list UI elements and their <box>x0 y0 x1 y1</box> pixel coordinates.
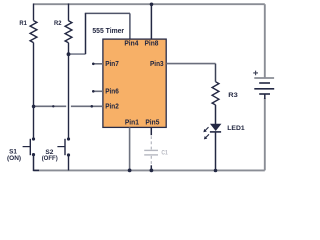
node Pin2 stub joint <box>91 105 94 108</box>
svg-text:Pin1: Pin1 <box>125 120 139 127</box>
wire C1 dashed lower <box>150 156 152 165</box>
node Pin6 stub end <box>92 90 95 93</box>
wire down to R3 <box>215 64 217 82</box>
svg-text:Pin4: Pin4 <box>124 40 138 47</box>
resistor R3 <box>212 82 219 105</box>
wire Pin8 to top rail <box>150 4 152 39</box>
switch S2 blade <box>64 139 66 155</box>
battery plate 3 long <box>254 88 274 90</box>
node R2 junction <box>67 52 71 56</box>
node rail x Pin1 <box>128 169 132 173</box>
battery plate 2 short <box>259 82 270 84</box>
wire LED to rail <box>215 132 217 171</box>
svg-text:Pin6: Pin6 <box>105 88 119 95</box>
wire Pin2 to S1 column (left of gap) <box>34 105 67 107</box>
svg-text:R2: R2 <box>54 20 62 27</box>
node small on Pin2 wire <box>52 105 54 107</box>
svg-text:Pin8: Pin8 <box>145 40 159 47</box>
LED1 diode triangle <box>211 124 221 130</box>
battery B1 plus sign <box>253 71 258 76</box>
wire Pin5 solid stub <box>150 127 152 135</box>
LED1 arrow 2 shaft <box>205 134 209 138</box>
battery plate 1 long gray <box>254 77 274 79</box>
battery plate 4 short <box>259 93 270 95</box>
node rail x C1 <box>150 169 154 173</box>
wire Pin5 dashed upper <box>150 136 152 149</box>
wire R2 bottom to S2 <box>68 43 70 138</box>
switch S1 lever <box>23 146 31 148</box>
svg-text:C1: C1 <box>161 150 168 157</box>
switch S1 blade <box>29 139 31 155</box>
LED1 arrow 1 head <box>203 129 206 132</box>
node rail x LED <box>214 169 218 173</box>
wire Pin7 stub <box>93 63 103 65</box>
battery bottom stub <box>264 94 266 99</box>
svg-text:Pin2: Pin2 <box>105 103 119 110</box>
label box gray top edge <box>85 12 130 14</box>
svg-text:R3: R3 <box>228 92 238 99</box>
wire R1 bottom to S1 <box>33 43 35 138</box>
wire junction up to label box (navy) <box>85 13 87 54</box>
svg-text:LED1: LED1 <box>227 125 245 132</box>
capacitor C1 plate top <box>144 149 158 151</box>
wire S2 bottom to rail <box>68 156 70 170</box>
wire R1 column top <box>33 4 35 21</box>
svg-text:Pin7: Pin7 <box>105 61 119 68</box>
bottom ground rail <box>34 169 265 171</box>
wire R2 column top <box>68 4 70 21</box>
svg-text:(ON): (ON) <box>7 155 21 162</box>
switch S1 contacts <box>32 137 35 140</box>
svg-text:Pin5: Pin5 <box>145 120 159 127</box>
battery wire lower <box>264 98 266 170</box>
top rail V+ <box>34 3 265 5</box>
switch S2 lever <box>57 146 65 148</box>
wire Pin2 right of gap <box>71 105 103 107</box>
wire Pin3 to LED column <box>166 63 215 65</box>
LED1 cathode bar <box>210 131 221 133</box>
svg-text:R1: R1 <box>19 20 27 27</box>
node top rail x Pin8 <box>150 3 154 7</box>
resistor R2 <box>65 21 72 43</box>
resistor R1 <box>30 21 37 43</box>
battery wire upper <box>264 4 266 78</box>
op-amp U1 555 timer IC body <box>103 39 166 127</box>
wire Pin4 gray vertical <box>129 13 131 39</box>
wire Pin1 to rail <box>129 127 131 170</box>
svg-text:Pin3: Pin3 <box>150 61 164 68</box>
LED1 arrow 2 head <box>204 136 207 139</box>
node Pin7 stub end <box>92 63 95 66</box>
svg-text:555 Timer: 555 Timer <box>92 26 124 35</box>
wire R3 to LED <box>215 105 217 124</box>
LED1 arrow 1 shaft <box>205 127 209 131</box>
wire Pin6 stub <box>93 90 103 92</box>
svg-text:(OFF): (OFF) <box>42 155 58 162</box>
wire S1 bottom to rail <box>34 156 40 171</box>
switch S2 contacts <box>67 137 70 140</box>
wire R2 junction to label box (gray) <box>69 53 86 55</box>
wire C1 bottom stub <box>150 165 152 170</box>
node Pin2 x S1 column <box>32 105 36 109</box>
capacitor C1 plate bottom <box>144 154 158 156</box>
